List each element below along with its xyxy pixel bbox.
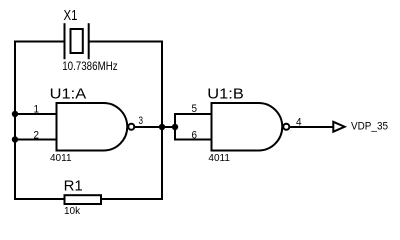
junction dot at fork <box>172 124 178 130</box>
wire: pin 2 input <box>14 139 57 141</box>
terminal triangle <box>333 122 344 132</box>
svg-text:10k: 10k <box>64 206 81 217</box>
svg-text:6: 6 <box>192 129 198 141</box>
wire: bottom net, left segment to R1 <box>14 198 65 200</box>
wire: pin 1 input <box>14 113 57 115</box>
svg-text:U1:A: U1:A <box>50 86 86 103</box>
crystal body box <box>71 29 83 53</box>
wire: pin 3 output to fork <box>134 126 175 128</box>
crystal X1 <box>62 7 117 73</box>
wire: top net, left segment from left rail to crystal <box>15 41 65 43</box>
output terminal arrow VDP_35 <box>333 120 388 132</box>
svg-text:5: 5 <box>192 103 198 115</box>
svg-text:X1: X1 <box>64 7 78 24</box>
U1:A output bubble <box>128 124 134 130</box>
junction dot on left rail at pin 1 <box>12 111 18 117</box>
svg-text:R1: R1 <box>64 178 83 195</box>
crystal right plate <box>88 23 90 59</box>
U1:B body <box>212 103 283 151</box>
wire: top net, right segment from crystal to right rail <box>89 41 162 43</box>
svg-text:U1:B: U1:B <box>207 86 244 103</box>
svg-text:10.7386MHz: 10.7386MHz <box>62 59 117 73</box>
crystal left plate <box>64 23 66 59</box>
junction dot on left rail at pin 2 <box>12 136 18 142</box>
NAND gate U1:A <box>34 86 144 164</box>
svg-text:3: 3 <box>139 115 144 127</box>
R1 body box <box>65 195 102 204</box>
NAND gate U1:B <box>192 86 302 164</box>
wire: fork vertical <box>174 113 176 141</box>
svg-text:VDP_35: VDP_35 <box>351 120 388 132</box>
U1:A body <box>57 103 128 151</box>
wire: left vertical rail <box>14 41 16 201</box>
wire: bottom net, right segment from R1 <box>101 198 163 200</box>
wire: pin 6 input <box>175 139 212 141</box>
junction dot on right rail at output row <box>159 124 165 130</box>
svg-text:4011: 4011 <box>208 153 230 164</box>
wire: right vertical rail <box>161 41 163 201</box>
svg-text:4011: 4011 <box>50 153 72 164</box>
resistor R1 <box>64 178 101 218</box>
wire: pin 4 output to terminal <box>289 126 332 128</box>
U1:B output bubble <box>283 124 289 130</box>
wire: pin 5 input <box>175 113 212 115</box>
